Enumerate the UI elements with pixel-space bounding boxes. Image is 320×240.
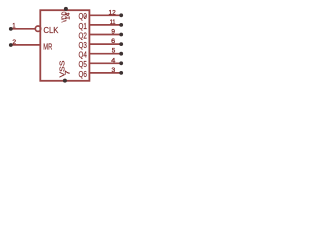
svg-text:5: 5 (112, 48, 116, 55)
svg-text:CLK: CLK (43, 25, 58, 35)
output pin Q6 wire (89, 72, 119, 74)
svg-text:6: 6 (111, 38, 115, 45)
Q0 endpoint dot (119, 13, 123, 17)
pin 2 endpoint dot (9, 43, 13, 47)
Q2 endpoint dot (119, 33, 123, 37)
output pin Q5 wire (89, 62, 119, 64)
Q6 endpoint dot (119, 71, 123, 75)
pin 1 endpoint dot (9, 27, 13, 31)
output pin Q1 wire (89, 24, 119, 26)
svg-text:Q6: Q6 (79, 69, 88, 79)
Q1 endpoint dot (119, 23, 123, 27)
Q0 slashed-zero stroke (84, 14, 86, 18)
CLK inversion bubble (35, 26, 40, 31)
output pin Q4 wire (89, 53, 119, 55)
IC body U1 (CD4024 counter) (40, 10, 89, 81)
svg-text:9: 9 (111, 29, 115, 36)
VDD pin junction dot (64, 7, 68, 11)
pin 1 CLK wire (12, 28, 35, 30)
pin 2 MR wire (12, 44, 40, 46)
Q4 endpoint dot (119, 52, 123, 56)
svg-text:MR: MR (43, 41, 52, 51)
output pin Q0 wire (89, 14, 119, 16)
svg-text:Q2: Q2 (79, 30, 88, 40)
VSS pin junction dot (63, 79, 67, 83)
svg-text:2: 2 (12, 39, 16, 46)
svg-text:VDD: VDD (60, 11, 69, 22)
output pin Q3 wire (89, 43, 119, 45)
svg-text:12: 12 (109, 9, 117, 16)
output pin Q2 wire (89, 34, 119, 36)
svg-text:1: 1 (12, 23, 15, 30)
Q3 endpoint dot (119, 42, 123, 46)
svg-text:11: 11 (110, 19, 116, 26)
svg-text:3: 3 (112, 67, 116, 74)
svg-text:VSS: VSS (57, 61, 66, 78)
svg-text:4: 4 (111, 57, 116, 64)
Q5 endpoint dot (119, 61, 123, 65)
svg-text:Q4: Q4 (79, 50, 88, 60)
svg-text:Q1: Q1 (79, 21, 88, 31)
svg-text:Q3: Q3 (79, 40, 88, 50)
svg-text:Q5: Q5 (79, 59, 88, 69)
